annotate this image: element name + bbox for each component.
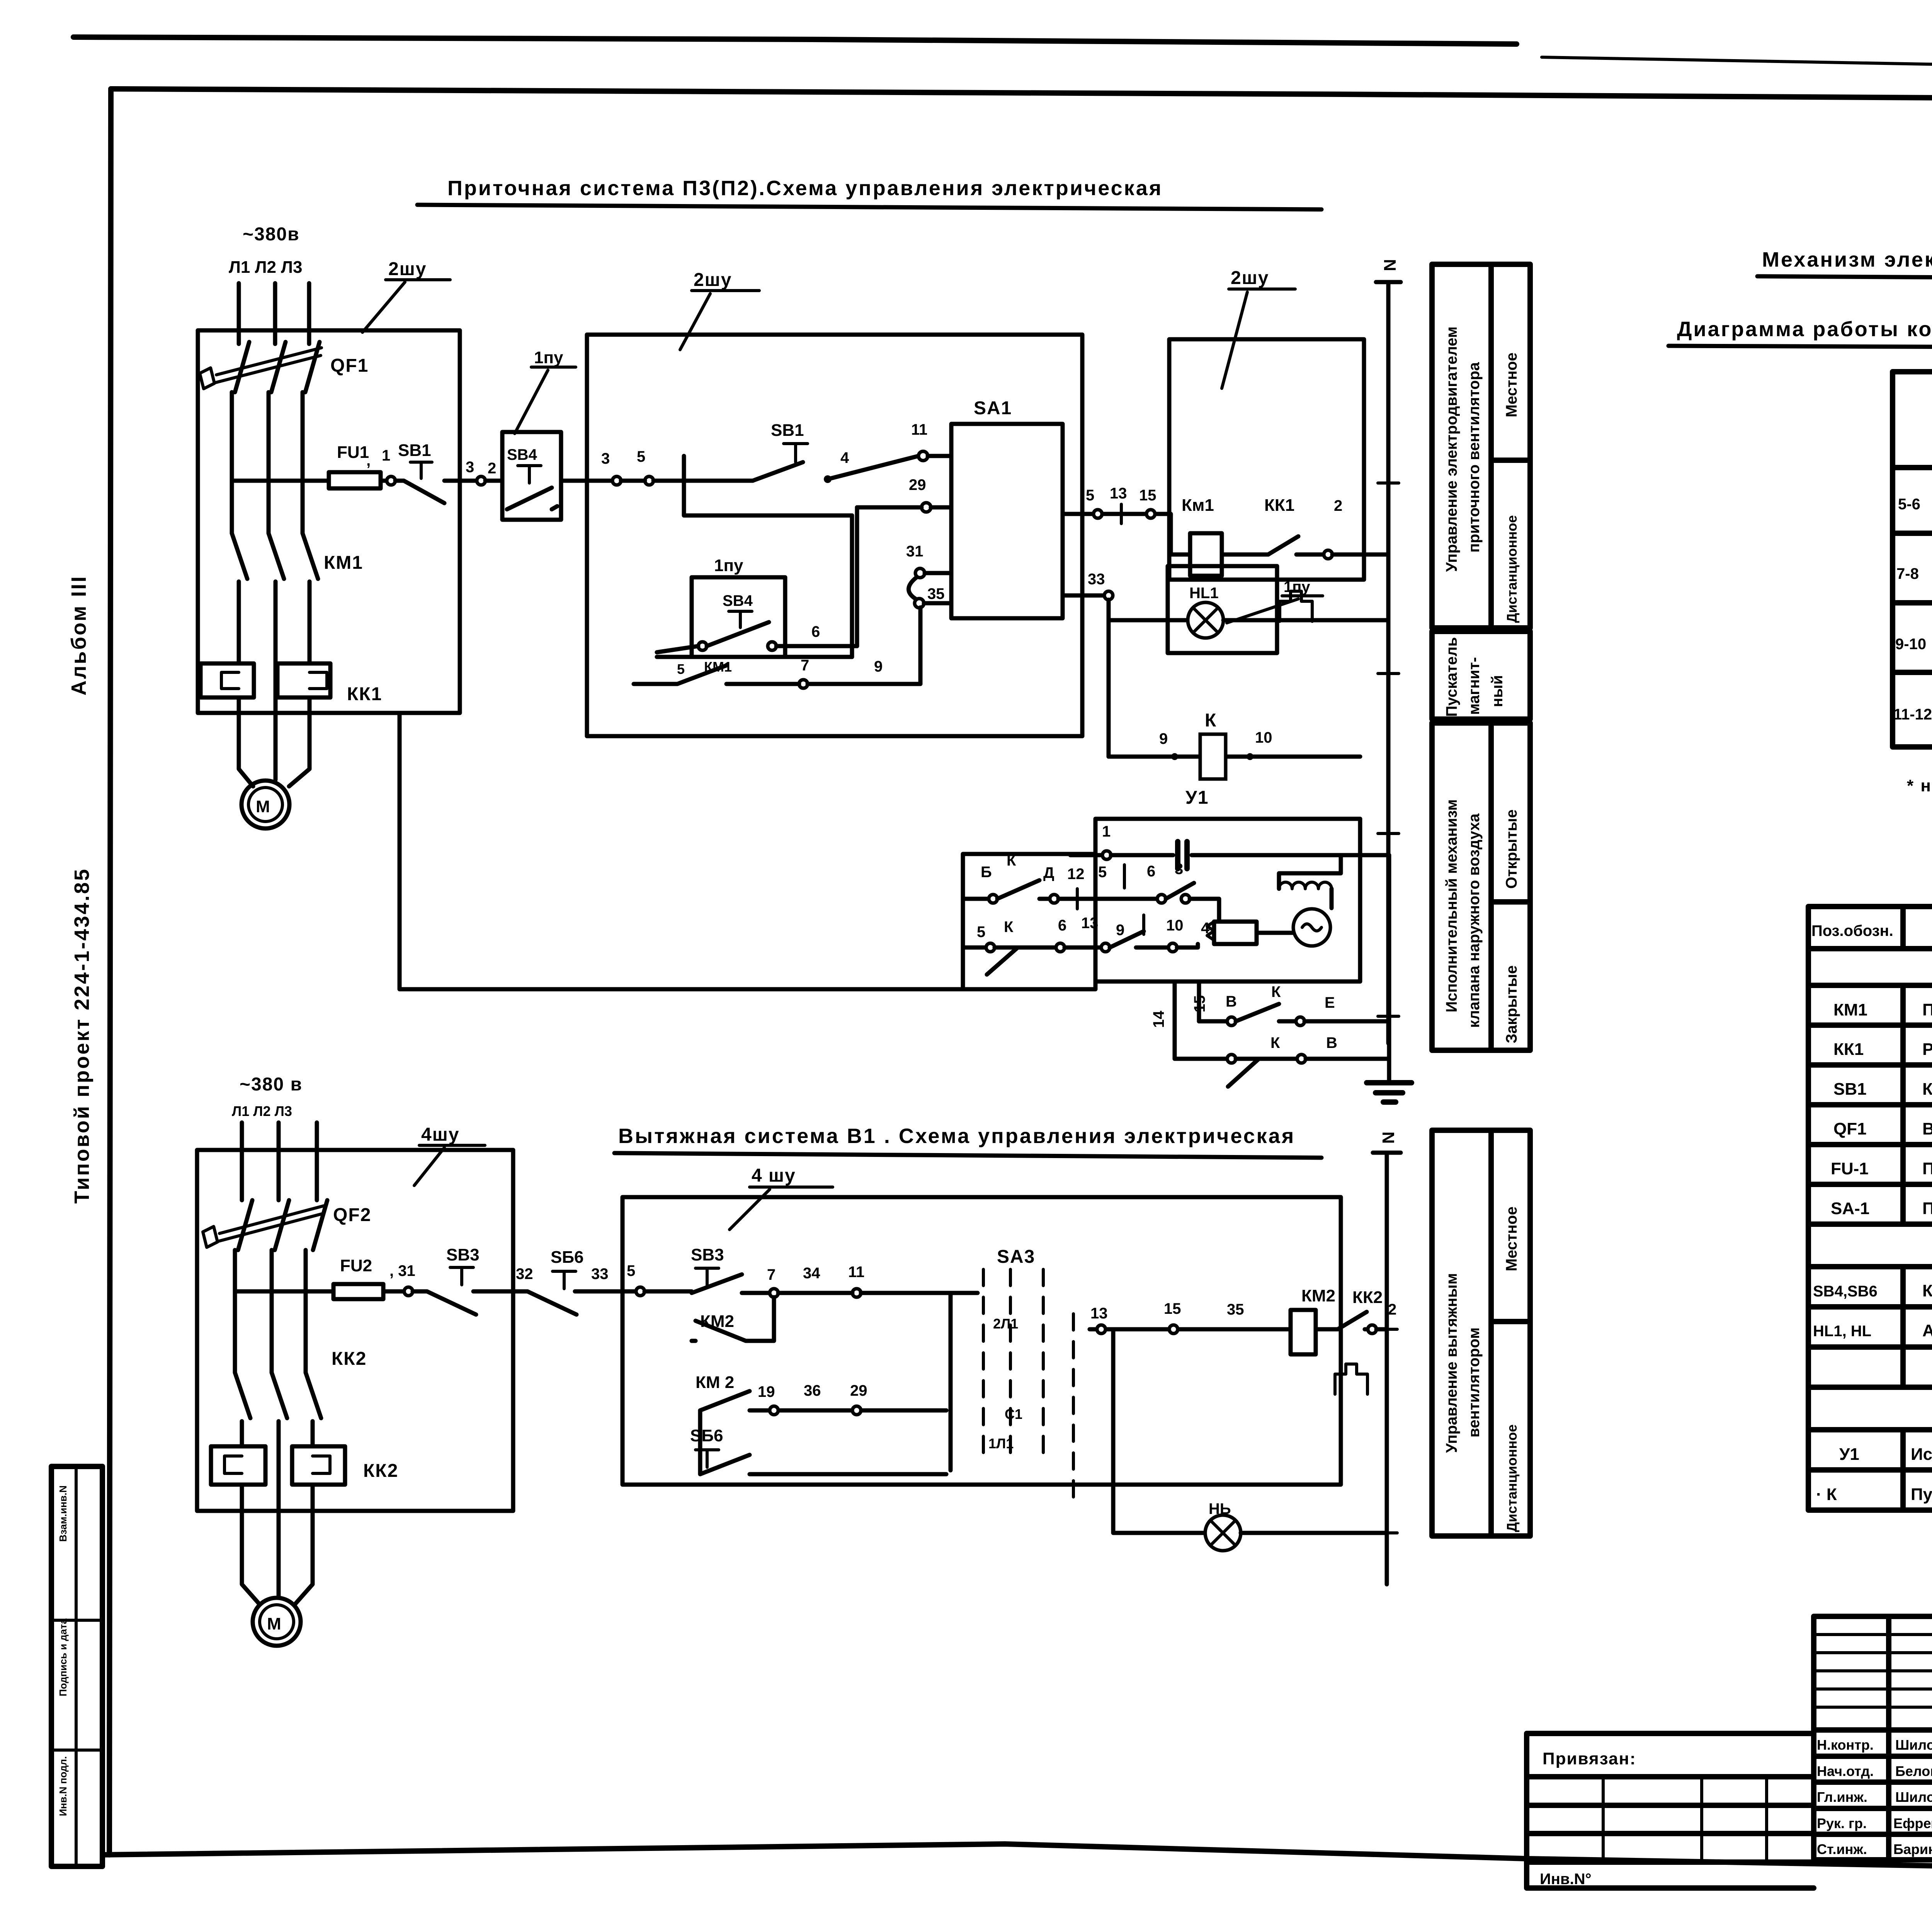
svg-text:2: 2 — [488, 460, 496, 477]
svg-text:КМ 2: КМ 2 — [696, 1373, 734, 1392]
svg-text:Привязан:: Привязан: — [1543, 1749, 1636, 1768]
svg-text:К: К — [1270, 1034, 1280, 1051]
svg-text:Кнопка управления КЕ: Кнопка управления КЕ — [1922, 1281, 1932, 1300]
control box 4шу — [622, 1197, 1341, 1485]
svg-text:5: 5 — [637, 448, 645, 465]
svg-text:Д: Д — [1043, 864, 1054, 881]
svg-text:1: 1 — [1102, 823, 1111, 840]
svg-text:SB1: SB1 — [398, 441, 431, 460]
svg-text:КМ1: КМ1 — [324, 553, 363, 573]
svg-text:3: 3 — [466, 459, 474, 476]
svg-text:Приточная система П3(П2).Схе: Приточная система П3(П2).Схема управлени… — [447, 177, 1163, 200]
svg-text:2: 2 — [1334, 497, 1342, 514]
svg-text:4: 4 — [840, 449, 849, 466]
svg-text:12: 12 — [1067, 866, 1085, 883]
contactor KM2 main contacts — [235, 1349, 367, 1565]
wires to motor — [242, 1485, 313, 1604]
button SB3 stop — [413, 1245, 527, 1315]
svg-text:13: 13 — [1110, 485, 1127, 502]
привязан block — [1527, 1733, 1814, 1888]
svg-text:15: 15 — [1164, 1300, 1181, 1317]
svg-text:НL1, НL: НL1, НL — [1813, 1323, 1871, 1340]
svg-text:Дистанционное: Дистанционное — [1504, 515, 1520, 623]
svg-text:FU1: FU1 — [337, 443, 369, 462]
svg-text:2Л1: 2Л1 — [993, 1316, 1018, 1332]
svg-text:Шилов: Шилов — [1895, 1789, 1932, 1805]
contactor KM1 main contacts — [232, 533, 363, 765]
label 2шу with leader — [1222, 268, 1295, 388]
button SB1 start — [753, 421, 918, 483]
svg-text:Л1 Л2 Л3: Л1 Л2 Л3 — [229, 258, 302, 277]
breaker QF2 — [203, 1200, 371, 1250]
svg-text:15: 15 — [1139, 487, 1156, 504]
thermal relay KK2 heaters — [211, 1446, 398, 1485]
TB — [1527, 1616, 1932, 1888]
C1 — [198, 177, 1412, 1102]
parts table grid — [1808, 907, 1932, 1510]
lower wires pair — [684, 456, 857, 657]
svg-text:11: 11 — [911, 421, 927, 438]
N bus top — [1376, 259, 1401, 1043]
svg-text:В: В — [1226, 993, 1237, 1010]
svg-text:11-12: 11-12 — [1893, 706, 1932, 723]
contactor coil KM1 — [1182, 496, 1268, 576]
svg-text:3: 3 — [601, 450, 610, 467]
label 4шу with leader — [414, 1124, 485, 1186]
svg-text:1пу: 1пу — [1284, 578, 1310, 595]
svg-text:Переключатель пакетный: Переключатель пакетный — [1922, 1199, 1932, 1218]
signature table — [1814, 1616, 1932, 1860]
svg-text:У1: У1 — [1185, 788, 1209, 808]
svg-text:Рук. гр.: Рук. гр. — [1817, 1815, 1867, 1831]
inner frame top line — [111, 89, 1932, 101]
svg-text:С1: С1 — [1005, 1406, 1022, 1422]
contactor coil KM2 — [1291, 1286, 1338, 1354]
svg-text:6: 6 — [811, 623, 820, 640]
svg-text:5-6: 5-6 — [1898, 496, 1920, 513]
motor M2 — [253, 1598, 301, 1646]
C2 — [197, 1074, 1396, 1646]
svg-text:5: 5 — [977, 924, 985, 941]
svg-text:N: N — [1381, 259, 1400, 271]
svg-text:33: 33 — [1088, 571, 1105, 588]
node 2 to N — [1324, 550, 1332, 559]
node 1 31 — [404, 1287, 413, 1296]
svg-text:9-10: 9-10 — [1895, 636, 1926, 653]
PARTS — [1808, 907, 1932, 1510]
wire 33 output — [1063, 571, 1113, 757]
wire from power box to actuator — [400, 713, 963, 989]
svg-text:КК1: КК1 — [1264, 496, 1294, 515]
svg-text:Исполнительный механизм МЭО-: Исполнительный механизм МЭО-4/63-03 — [1911, 1445, 1932, 1464]
svg-text:вентилятором: вентилятором — [1466, 1327, 1483, 1437]
row SB4 SB6 — [1813, 1281, 1932, 1300]
fuse FU2 — [235, 1256, 404, 1299]
svg-text:31: 31 — [906, 543, 923, 560]
svg-text:, 31: , 31 — [389, 1262, 415, 1279]
wire 14 15 labels — [1150, 981, 1208, 1059]
svg-text:Шилов: Шилов — [1895, 1737, 1932, 1753]
wire right side of actuator — [1387, 855, 1391, 1082]
svg-text:· К: · К — [1816, 1485, 1837, 1504]
svg-text:SВ4: SВ4 — [723, 592, 753, 609]
button SB6 stop — [516, 1248, 636, 1315]
svg-text:6: 6 — [1058, 917, 1066, 934]
svg-text:Кнопка управления: Кнопка управления — [1922, 1080, 1932, 1099]
shield box 4шу power — [197, 1150, 513, 1511]
row У1 — [1839, 1445, 1932, 1464]
svg-text:Пускатель магнитный: Пускатель магнитный — [1922, 1000, 1932, 1019]
svg-text:9: 9 — [1159, 730, 1168, 747]
svg-text:QF1: QF1 — [330, 356, 369, 376]
svg-text:14: 14 — [1150, 1010, 1167, 1028]
svg-text:N: N — [1379, 1131, 1398, 1144]
svg-text:SБ6: SБ6 — [690, 1426, 723, 1445]
svg-text:2шу: 2шу — [1231, 268, 1269, 288]
svg-text:Поз.обозн.: Поз.обозн. — [1811, 922, 1893, 939]
svg-text:36: 36 — [804, 1382, 821, 1399]
relay K — [1109, 710, 1360, 779]
svg-text:29: 29 — [850, 1382, 867, 1399]
svg-text:Инв.N подл.: Инв.N подл. — [57, 1756, 69, 1816]
parts table header — [1811, 922, 1932, 942]
svg-text:Белов: Белов — [1895, 1763, 1932, 1779]
svg-text:КМ2: КМ2 — [1301, 1286, 1335, 1305]
svg-text:5: 5 — [627, 1262, 635, 1279]
button SB6 start — [690, 1410, 946, 1474]
svg-text:,: , — [366, 452, 371, 469]
inner frame left line — [109, 89, 111, 1855]
svg-text:1пу: 1пу — [534, 348, 563, 367]
ground — [1367, 1083, 1412, 1102]
svg-text:Вытяжная система В1 . Схема: Вытяжная система В1 . Схема управления э… — [618, 1124, 1295, 1148]
svg-text:~380в: ~380в — [243, 224, 300, 245]
svg-text:К: К — [1004, 919, 1014, 936]
nodes 7 34 11 — [767, 1264, 978, 1297]
phase wires L1 L2 L3 — [239, 283, 309, 344]
shield box 2шу right — [1169, 339, 1364, 580]
svg-text:7: 7 — [767, 1266, 776, 1283]
svg-text:Пускатель: Пускатель — [1443, 637, 1460, 717]
lamp HL branch — [1113, 1329, 1387, 1551]
svg-text:КК2: КК2 — [1352, 1288, 1383, 1307]
svg-text:32: 32 — [516, 1266, 533, 1283]
svg-text:SВ1: SВ1 — [1833, 1080, 1867, 1099]
svg-text:В: В — [1326, 1034, 1337, 1051]
svg-text:Местное: Местное — [1503, 352, 1520, 417]
node 11 — [918, 451, 928, 461]
svg-text:ный: ный — [1489, 675, 1506, 707]
MID — [1373, 264, 1530, 1584]
N bus bottom — [1373, 1131, 1401, 1584]
label 4 шу with leader — [730, 1165, 833, 1230]
svg-text:35: 35 — [1227, 1301, 1244, 1318]
phase continuation — [235, 1250, 306, 1373]
phase wires — [242, 1123, 317, 1200]
svg-text:клапана наружного воздуха: клапана наружного воздуха — [1466, 813, 1483, 1028]
svg-text:SВ3: SВ3 — [446, 1245, 480, 1264]
svg-text:10: 10 — [1255, 729, 1272, 746]
wires phase continuation — [232, 392, 303, 533]
svg-text:НL1: НL1 — [1189, 585, 1219, 602]
label 2шу with leader — [680, 270, 759, 350]
wire to control box — [485, 479, 614, 483]
thermal contact KK1 — [1264, 496, 1324, 621]
svg-text:6: 6 — [1147, 863, 1155, 880]
row КК1 — [1833, 1040, 1932, 1059]
svg-text:13: 13 — [1090, 1305, 1108, 1322]
svg-text:QF2: QF2 — [333, 1205, 371, 1225]
wire row 2 with contacts 5 К 6 13 9 10 4 — [963, 915, 1210, 975]
wire 13 15 35 to KM2 coil — [1090, 1300, 1291, 1334]
svg-text:Арматура сигнальной лампы: Арматура сигнальной лампы — [1922, 1321, 1932, 1340]
svg-text:Л1 Л2 Л3: Л1 Л2 Л3 — [232, 1103, 292, 1119]
wires 31 35 — [906, 543, 951, 608]
svg-text:5: 5 — [1098, 864, 1107, 881]
row КМ1 — [1833, 1000, 1932, 1019]
svg-text:Е: Е — [1325, 994, 1335, 1011]
thermal relay KK1 heaters — [201, 663, 382, 704]
svg-text:1: 1 — [382, 447, 390, 464]
svg-text:Подпись и дата: Подпись и дата — [57, 1618, 69, 1696]
wires to motor — [239, 697, 310, 786]
wire 5 13 15 output — [1063, 485, 1190, 555]
button box 1пу SB4 — [502, 348, 576, 520]
svg-text:Дистанционное: Дистанционное — [1504, 1424, 1520, 1532]
label column group 1 — [1432, 264, 1530, 628]
svg-text:FU2: FU2 — [340, 1256, 372, 1275]
svg-text:11: 11 — [848, 1264, 864, 1281]
limit switch diagram table — [1893, 372, 1932, 747]
top border line right segment — [1542, 57, 1932, 70]
label column group 4 — [1432, 1130, 1530, 1536]
svg-text:SВ4,SВ6: SВ4,SВ6 — [1813, 1283, 1878, 1300]
label column group 3 — [1432, 723, 1530, 1050]
svg-text:КК2: КК2 — [363, 1461, 398, 1481]
svg-text:SB1: SB1 — [771, 421, 804, 440]
switch SA1 — [928, 398, 1063, 618]
svg-text:2шу: 2шу — [694, 270, 732, 290]
nodes 3 2 — [477, 476, 485, 485]
node 1 — [387, 476, 395, 485]
svg-text:Механизм электрический У1: Механизм электрический У1 — [1762, 248, 1932, 271]
fuse FU1 — [232, 443, 386, 488]
svg-text:К: К — [1271, 983, 1281, 1000]
top border line left segment — [73, 37, 1517, 44]
svg-text:1Л1: 1Л1 — [988, 1436, 1014, 1451]
svg-text:5: 5 — [1086, 487, 1094, 504]
svg-text:М: М — [267, 1614, 281, 1633]
svg-text:SА-1: SА-1 — [1831, 1199, 1869, 1218]
actuator winding — [1279, 855, 1341, 908]
svg-text:Ст.инж.: Ст.инж. — [1817, 1841, 1867, 1857]
shield box 2шу (power) — [198, 330, 460, 713]
svg-text:Диаграмма работы конечных в: Диаграмма работы конечных выключателей — [1677, 318, 1932, 341]
svg-text:34: 34 — [803, 1265, 820, 1282]
svg-text:SА1: SА1 — [974, 398, 1012, 418]
svg-text:Открытые: Открытые — [1503, 810, 1520, 889]
row НЛ1 НЬ — [1813, 1321, 1932, 1340]
contact row В К Е — [1199, 983, 1389, 1026]
lamp HL1 box — [1109, 566, 1388, 653]
svg-text:М: М — [256, 797, 270, 816]
svg-text:КК2: КК2 — [332, 1349, 367, 1369]
svg-text:SА3: SА3 — [997, 1247, 1035, 1267]
svg-text:Нач.отд.: Нач.отд. — [1817, 1763, 1874, 1779]
actuator heater — [1207, 922, 1293, 944]
capacitor wire row — [1070, 823, 1389, 869]
inner frame bottom line — [102, 1844, 1932, 1871]
svg-text:SВ3: SВ3 — [691, 1245, 724, 1264]
svg-text:9: 9 — [874, 658, 883, 675]
svg-text:SБ6: SБ6 — [551, 1248, 583, 1267]
svg-text:7-8: 7-8 — [1896, 565, 1919, 582]
svg-text:Типовой проект 224-1-434.85: Типовой проект 224-1-434.85 — [70, 867, 94, 1204]
button box 1пу SB4 lower — [657, 556, 857, 657]
svg-text:Баринова: Баринова — [1893, 1841, 1932, 1857]
svg-text:19: 19 — [758, 1383, 775, 1400]
svg-text:29: 29 — [909, 476, 926, 493]
thermal contact KK2 — [1335, 1288, 1383, 1394]
svg-text:7: 7 — [801, 657, 809, 674]
wire row 1 with contacts Б К Д 12 5 6 3 — [963, 852, 1219, 922]
svg-text:Ефремова: Ефремова — [1893, 1815, 1932, 1831]
svg-text:4шу: 4шу — [421, 1124, 459, 1145]
svg-text:К: К — [1205, 710, 1217, 731]
svg-text:2: 2 — [1388, 1301, 1396, 1318]
svg-text:~380 в: ~380 в — [240, 1074, 303, 1095]
motor M1 — [241, 781, 289, 828]
DIAG — [1668, 248, 1932, 795]
svg-text:Закрытые: Закрытые — [1503, 965, 1520, 1043]
stamp column box — [51, 1466, 102, 1866]
button SB3 start — [645, 1245, 770, 1293]
svg-text:Реле тепловое: Реле тепловое — [1922, 1040, 1932, 1059]
svg-text:Местное: Местное — [1503, 1206, 1520, 1271]
control box 2шу — [587, 335, 1082, 736]
switch SA3 dashed — [983, 1247, 1073, 1507]
row К — [1816, 1485, 1932, 1504]
svg-text:Гл.инж.: Гл.инж. — [1817, 1789, 1867, 1805]
row FU-1 — [1831, 1159, 1932, 1178]
row SA-1 — [1831, 1199, 1932, 1218]
row QF1 — [1833, 1119, 1932, 1138]
svg-text:Пускатель магнитный кат.~220: Пускатель магнитный кат.~220в ПМЕ 121 — [1911, 1485, 1932, 1504]
svg-text:Км1: Км1 — [1182, 496, 1214, 515]
svg-text:Исполнительный механизм: Исполнительный механизм — [1443, 799, 1460, 1012]
svg-text:Альбом III: Альбом III — [67, 575, 90, 696]
svg-text:Н.контр.: Н.контр. — [1817, 1737, 1874, 1753]
contact KM2 holding — [692, 1297, 774, 1341]
svg-text:QF1: QF1 — [1833, 1119, 1867, 1138]
svg-text:5: 5 — [677, 661, 685, 677]
svg-text:2шу: 2шу — [388, 259, 427, 279]
svg-text:13: 13 — [1081, 915, 1099, 932]
contact KM1 aux — [634, 607, 920, 688]
svg-text:10: 10 — [1166, 917, 1184, 934]
wire 29 — [857, 476, 951, 512]
svg-text:FU-1: FU-1 — [1831, 1159, 1869, 1178]
nodes 3 5 — [612, 476, 621, 485]
actuator motor ~ — [1293, 909, 1330, 946]
svg-text:Инв.N°: Инв.N° — [1540, 1871, 1592, 1888]
svg-text:9: 9 — [1116, 922, 1124, 939]
button SB1 stop — [395, 441, 477, 503]
svg-text:1пу: 1пу — [714, 556, 743, 575]
svg-text:приточного вентилятора: приточного вентилятора — [1466, 362, 1483, 553]
svg-text:Управление электродвигателем: Управление электродвигателем — [1443, 327, 1460, 572]
svg-text:КК1: КК1 — [1833, 1040, 1864, 1059]
svg-text:КМ1: КМ1 — [1833, 1000, 1867, 1019]
label 2шу with leader — [362, 259, 450, 332]
svg-text:Предохранитель плавкий трубч: Предохранитель плавкий трубчатый — [1922, 1159, 1932, 1178]
svg-text:35: 35 — [927, 585, 945, 602]
svg-text:магнит-: магнит- — [1466, 657, 1483, 715]
svg-text:* не используется: * не используется — [1907, 776, 1932, 795]
svg-text:33: 33 — [591, 1266, 609, 1283]
label column group 2 — [1432, 631, 1530, 719]
contact row К В — [1175, 1034, 1389, 1087]
svg-text:К: К — [1007, 852, 1016, 869]
svg-text:Выключатель автоматический: Выключатель автоматический — [1922, 1119, 1932, 1138]
svg-text:У1: У1 — [1839, 1445, 1859, 1464]
contact KM2 second — [696, 1293, 951, 1470]
svg-text:Б: Б — [981, 864, 992, 881]
node 2 — [1368, 1325, 1376, 1334]
svg-text:SВ4: SВ4 — [507, 446, 537, 463]
breaker QF1 — [200, 342, 369, 392]
node 5 — [636, 1287, 645, 1296]
svg-text:4 шу: 4 шу — [752, 1165, 796, 1186]
actuator У1 — [963, 788, 1360, 989]
row SB1 — [1833, 1080, 1932, 1099]
svg-text:Управление вытяжным: Управление вытяжным — [1443, 1273, 1460, 1453]
svg-text:Взам.инв.N: Взам.инв.N — [57, 1485, 69, 1542]
svg-text:КК1: КК1 — [347, 684, 382, 704]
